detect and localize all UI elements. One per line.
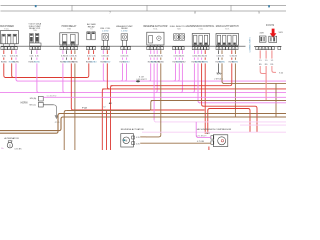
svg-text:0.35: 0.35 [125,56,129,58]
svg-text:RD/BU: RD/BU [179,62,186,64]
wire E1 violet elbow into bus [103,63,105,81]
svg-text:6: 6 [207,49,208,51]
svg-text:3: 3 [199,49,200,51]
red bus y77.5 [5,77,87,79]
svg-text:MS (1): MS (1) [29,104,36,106]
svg-text:1: 1 [257,49,258,51]
wire C4 brown drop [74,50,76,54]
alternator terminal box [8,141,11,143]
connector K housing 2 pins [270,37,272,41]
connector C housing [60,33,78,45]
svg-text:0.35: 0.35 [65,56,69,58]
wire A1 red drop [3,50,5,54]
svg-text:2: 2 [125,49,126,51]
svg-text:0.35: 0.35 [220,56,224,58]
svg-text:2: 2 [220,49,221,51]
svg-text:RD/BU: RD/BU [158,62,165,64]
svg-text:3: 3 [9,49,10,51]
svg-text:T17L: T17L [225,28,231,30]
connector G pin stubs [151,45,161,46]
svg-text:4: 4 [39,49,40,51]
brown pair inner corner up x61 [59,117,63,131]
wire J2 brown corner into brown line y83.4 [222,63,224,83]
svg-text:3: 3 [108,49,109,51]
svg-text:2: 2 [105,49,106,51]
wire C1 violet elbow into pink bus2 [63,63,65,92]
connector C pin tower 1 [62,34,67,44]
svg-text:2: 2 [176,49,177,51]
border top inner line [1,10,287,12]
faint pink line y132.2 [142,131,286,133]
connector C pin tower 2 [71,34,76,44]
svg-text:3: 3 [68,49,69,51]
wire K2 salmon drop [265,50,267,58]
pink line y102.8 to right edge [199,102,286,104]
brown pair outer corner up x58 [56,114,60,134]
svg-text:RD/BU: RD/BU [34,62,41,64]
wire C2 black drop [66,50,68,54]
compressor motor circle [218,137,226,145]
connector B pin number row [30,47,32,50]
svg-text:RD/BU: RD/BU [91,62,98,64]
wire I2 violet corner into pink line y102.8 [198,63,200,102]
wire F2 violet elbow into bus [125,63,127,81]
svg-text:1: 1 [173,49,174,51]
connector D pin tower 1 [87,32,91,40]
connector K housing 1 [259,36,266,42]
red vertical x207.8 to compressor [207,110,209,134]
connector G inner box [149,36,153,43]
svg-text:RD/BU: RD/BU [232,62,239,64]
svg-text:5: 5 [161,49,162,51]
wire A3 violet corner to bus [16,63,18,81]
connector I pin tower 2 [199,35,202,45]
svg-text:2: 2 [196,49,197,51]
svg-text:0.35: 0.35 [203,56,207,58]
connector strip baseline right group [254,45,282,47]
wire G1 violet drop [150,50,152,54]
svg-text:RD/BU: RD/BU [104,62,111,64]
svg-text:RD/BU: RD/BU [1,62,8,64]
svg-text:b2: b2 [103,107,105,109]
alternator motor circle [7,143,12,148]
connector D pin tower 2 [92,32,96,40]
compressor wire2 stub [194,142,211,144]
svg-text:RD/BU: RD/BU [13,62,20,64]
svg-text:CONNECTOR 5: CONNECTOR 5 [249,36,251,52]
svg-text:3: 3 [155,49,156,51]
svg-text:0.35: 0.35 [10,56,14,58]
connector A pin stubs [4,44,15,46]
pink feed to compressor wire1 [196,122,198,137]
svg-text:MS (A): MS (A) [30,97,37,100]
connector C pin stubs [63,44,75,46]
brown pair outer: line y133.2 from left [0,132,56,134]
connector A pin number row [1,47,4,50]
wire F1 violet elbow into bus [121,63,123,81]
svg-text:HORN: HORN [21,103,28,105]
wire E2 red drop [106,50,108,54]
svg-text:RD/BU: RD/BU [124,62,131,64]
wire E2 red elbow into red line y88.9 [107,63,109,89]
connector G pin number row [147,47,150,50]
wire C4 brown long vertical to bottom [74,63,76,150]
red line y88.9 to right edge [102,88,286,90]
connector A pin tower 3 [13,34,16,44]
brown pair outer line y113.5 to right edge [59,113,286,115]
svg-text:3: 3 [263,49,264,51]
wire B2 violet drop [36,50,38,54]
svg-text:2: 2 [91,49,92,51]
svg-text:4: 4 [227,49,228,51]
svg-text:D 15/72: D 15/72 [266,25,275,27]
horn continuation arrow down [54,105,57,116]
wire G2 violet vertical [153,63,155,120]
brown line y100.5 from z-step to right edge [151,100,286,102]
reverse actuator pin box upper [132,136,135,139]
wire A2 red drop [11,50,13,54]
violet bus y92.6 [0,92,286,94]
svg-text:4: 4 [72,49,73,51]
svg-text:1.5: 1.5 [271,60,274,62]
wire G3 violet drop [156,50,158,54]
highlight red arrow [270,29,277,38]
svg-text:T15L: T15L [198,28,204,30]
compressor housing [213,135,228,147]
svg-text:2: 2 [33,49,34,51]
red line y108.5 [209,108,248,110]
violet bus y81.1 [17,80,286,82]
wire C3b red drop [70,50,72,54]
connector E pin number row [101,47,103,50]
connector I pin tower 3 [204,35,207,45]
connector G round terminal [157,36,161,40]
blue grid mark left [35,5,37,7]
svg-text:RD/BU: RD/BU [202,62,209,64]
svg-text:T4B: T4B [177,28,181,30]
compressor pin box lower [211,141,214,144]
horn pin box lower [38,102,43,107]
brown line y110.5 [66,110,150,112]
wire H2 violet elbow into bus [177,63,179,81]
wire K3 salmon elbow right [272,66,276,72]
wire J3 red drop [231,50,233,54]
connector I pin number row [192,47,194,50]
svg-text:0.35: 0.35 [2,56,6,58]
connector J pin tower 1 [217,35,220,45]
compressor bottom stub [208,147,210,151]
wire I4 red vertical down to compressor [204,63,206,133]
brown z-step at x151.8 [149,101,153,111]
svg-text:0.35: 0.35 [30,56,34,58]
wire C1 violet drop [62,50,64,54]
svg-text:2.5 RD: 2.5 RD [102,31,109,33]
wire J2 brown drop [221,50,223,54]
red vertical x106.5 to bottom [106,110,108,150]
connector J pin number row [216,47,219,50]
svg-text:3: 3 [129,49,130,51]
wire I2 violet drop [197,50,199,54]
wire I3 violet drop [201,50,203,54]
wire I3 corner into red line y106.2 [202,63,204,106]
wire J4 brown drop [234,50,236,54]
connector D pin number row [86,47,89,50]
red line y108.5 left corner [208,109,210,111]
svg-text:T16L: T16L [153,28,159,30]
svg-text:1.5: 1.5 [259,60,262,62]
svg-text:1.5: 1.5 [265,60,268,62]
wire E1 violet drop [102,50,104,54]
border top outer line [1,4,287,6]
connector H round terminal 2 [179,34,184,40]
wire H3 violet elbow into pink bus2 [180,63,182,92]
svg-text:1.5 RD: 1.5 RD [121,31,128,33]
wire A3 violet drop [15,50,17,54]
connector strip baseline [1,45,246,47]
compressor motor inner dot [221,140,223,142]
reverse actuator teal pin dot [123,139,125,141]
wire H1 violet drop [175,50,177,54]
wire I1 violet corner into pink bus2 [192,63,194,92]
wire G1 violet elbow into bus [149,63,151,81]
svg-text:1: 1 [102,49,103,51]
wire A2 red corner to bus [12,63,14,77]
wire A1 red corner to bus [4,63,6,77]
connector H pin number row [173,47,176,50]
wire G2 violet corner into faint pink line y121.9 [154,120,156,122]
svg-text:0.35: 0.35 [14,56,18,58]
svg-text:6: 6 [233,49,234,51]
wire H3 violet drop [181,50,183,54]
wire C3b red long vertical [70,63,72,96]
red line y85.7 left corner down [111,86,113,150]
svg-text:RD/BU: RD/BU [219,62,226,64]
horn lower pin wire [43,104,53,106]
svg-text:0.35: 0.35 [87,56,91,58]
wire G2 violet drop [153,50,155,54]
brown corner down x64.2 [64,111,66,151]
connector J housing [216,34,239,46]
red line y85.7 right corner up to wire J3 [230,63,232,85]
horn pin box upper [38,96,43,101]
connector G housing [147,32,164,45]
brown pair inner: line y130.6 from left [0,130,59,132]
svg-text:0.35: 0.35 [73,56,77,58]
red line y108.5 corner down at 250 [248,109,250,133]
blue grid mark right [268,5,270,7]
svg-text:0.35: 0.35 [159,56,163,58]
connector K lone pin box [278,47,281,50]
red line y85.7 [111,85,230,87]
connector I housing [192,34,209,46]
svg-text:0.35: 0.35 [92,56,96,58]
connector C pin number row [60,47,63,50]
svg-text:J7 61: J7 61 [54,122,60,124]
svg-text:REVERSE ACTUATOR: REVERSE ACTUATOR [121,128,144,131]
border grid tick x=147 [146,5,148,11]
connector A pin tower 1 [2,34,5,44]
svg-text:G: G [9,143,11,147]
compressor wire1 violet stub [197,136,211,138]
svg-text:1: 1 [217,49,218,51]
faint pink line y125.1 right side [240,124,286,126]
svg-text:M: M [125,138,127,142]
svg-text:0.35: 0.35 [35,56,39,58]
wire J1 black drop to ground [217,50,219,54]
svg-text:6: 6 [273,49,274,51]
wire F2 violet drop [126,50,128,54]
svg-text:0.35: 0.35 [105,56,109,58]
border grid tick x=231 [230,5,232,11]
wire K1 salmon drop [259,50,261,58]
svg-text:1: 1 [87,49,88,51]
red line y106.2 corner down at 257 [255,106,257,132]
compressor pin box upper [211,136,214,139]
wire G4 brown corner left to actuator [146,135,161,137]
svg-text:7: 7 [236,49,237,51]
connector F legs [122,40,124,46]
wire G4 brown vertical [160,63,162,134]
connector J pin tower 4 [233,35,236,45]
reverse actuator pin box lower [132,142,135,145]
wire K1 salmon elbow join to K2 [260,66,266,74]
wire H2 violet drop [178,50,180,54]
connector K pin number row [256,47,259,50]
svg-text:1: 1 [61,49,62,51]
brown vertical x276 [275,83,277,117]
connector J pin tower 2 [223,35,226,45]
svg-text:2: 2 [260,49,261,51]
connector J pin stubs [218,45,235,46]
actuator upper stub brown wire [140,136,146,138]
connector B pin tower 2 [35,34,39,43]
svg-text:1: 1 [193,49,194,51]
border grid tick x=72 [71,5,73,11]
svg-text:F 22: F 22 [82,107,87,109]
svg-text:T8B: T8B [67,29,71,31]
connector A pin tower 2 [8,34,11,44]
svg-text:2: 2 [151,49,152,51]
brown pair inner line y117 to right edge [62,116,286,118]
connector F round terminal [121,34,128,40]
connector I pin tower 1 [194,35,197,45]
svg-text:4: 4 [158,49,159,51]
svg-text:0.35 BK: 0.35 BK [14,149,22,150]
wire G4 brown drop [160,50,162,54]
red line y88.9 left corner down [102,89,104,150]
wire C3b red vertical to corner [71,96,73,110]
svg-text:1: 1 [148,49,149,51]
connector F pin number row [121,47,124,50]
connector B pin tower 1 [30,34,34,43]
svg-text:1: 1 [2,49,3,51]
red line y106.2 [203,105,255,107]
svg-text:HE SUSPENSION COMPRESSOR: HE SUSPENSION COMPRESSOR [197,129,232,131]
wire H1 violet elbow into bus [174,63,176,81]
wire D1 red drop [88,50,90,54]
svg-text:2: 2 [65,49,66,51]
ground symbol [216,73,221,74]
connector J pin tower 3 [228,35,231,45]
svg-text:2: 2 [5,49,6,51]
connector H round terminal 1 [174,34,179,40]
wire J4 brown long vertical to lower brown line [234,63,236,117]
wire I1 violet drop [193,50,195,54]
wire K3 salmon drop [271,50,273,58]
svg-text:5: 5 [269,49,270,51]
brown line y83.4 to right edge [223,82,286,84]
svg-text:5: 5 [76,49,77,51]
connector E legs [102,40,104,46]
svg-text:4: 4 [266,49,267,51]
svg-text:5: 5 [230,49,231,51]
faint pink line y121.9 to right edge [155,121,286,123]
svg-text:0.35: 0.35 [233,56,237,58]
splice dot on violet bus [136,80,140,82]
svg-text:3: 3 [223,49,224,51]
reverse actuator motor circle [123,137,130,144]
svg-text:RD/BU: RD/BU [72,62,79,64]
wire I4 red drop [204,50,206,54]
reverse actuator housing [121,134,134,147]
connector K housing 1 pins [260,37,262,41]
pink line y97.3 from horn to right edge [43,96,286,98]
wire G3 violet elbow into pink bus2 [155,63,157,92]
wire B2 violet elbow into pink bus2 [37,63,39,92]
connector A housing [1,30,19,43]
connector K housing 2 [269,36,277,42]
wire D1 red corner into red bus [87,63,89,77]
wire B1 black drop [31,50,33,54]
actuator lower stub brown wire to compressor [140,142,194,144]
connector I pin stubs [194,45,205,46]
svg-text:0.35: 0.35 [181,56,185,58]
red line y110 [72,109,204,111]
wire F1 violet drop [122,50,124,54]
wire D2 red drop [93,50,95,54]
connector E round terminal [102,34,109,40]
connector B lower boxes [30,43,41,46]
